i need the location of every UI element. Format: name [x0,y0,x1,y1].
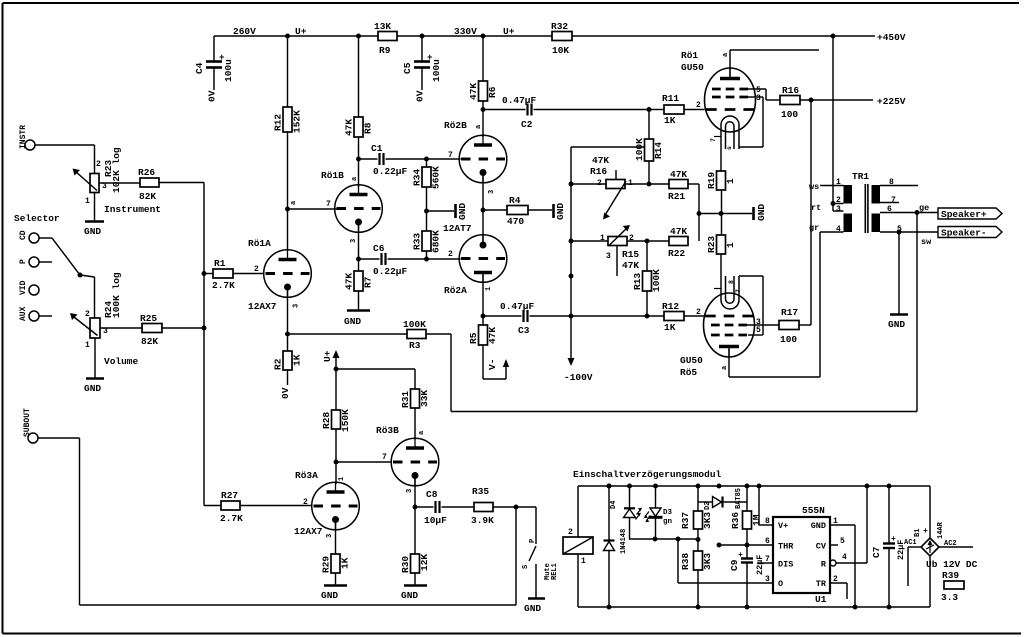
svg-text:R22: R22 [668,248,685,259]
pin 4 U1 [830,484,869,566]
pin 3 Ro3A cathode [326,534,334,538]
svg-text:1K: 1K [340,557,351,569]
svg-text:-100V: -100V [564,372,593,383]
svg-text:100K: 100K [403,319,426,330]
svg-text:GND: GND [84,383,101,394]
supply arrow -100V [564,358,593,383]
svg-text:INSTR: INSTR [19,125,28,149]
resistor R38 3K3 [680,529,713,609]
svg-text:rt: rt [811,203,821,213]
node out junction [676,537,681,542]
label Ro2A [444,285,467,296]
pin 2 Ro1 grid [696,101,701,110]
wire cathode GND row [699,213,752,215]
svg-text:R1: R1 [214,258,226,269]
svg-text:47K: 47K [670,169,687,180]
node R36/C9 junction [745,543,750,548]
capacitor C9 22uF [729,551,765,609]
node R19 bottom junction [719,211,724,216]
svg-text:GND: GND [401,590,418,601]
node R34 top junction [424,157,429,162]
svg-text:VID: VID [19,280,28,295]
resistor R37 3K3 [680,484,713,529]
wire R8 column [356,34,361,159]
svg-text:R5: R5 [468,332,479,344]
svg-text:R17: R17 [781,307,798,318]
svg-text:Volume: Volume [104,356,139,367]
node Ro1A cathode junction [285,332,290,337]
resistor R9 13K [374,21,397,56]
svg-text:8: 8 [728,280,735,284]
node +450V label [877,32,906,43]
svg-text:6: 6 [887,205,892,214]
node Ro3A anode junction [334,460,339,465]
pin 3 TR1 [836,205,841,214]
svg-text:47K: 47K [344,273,355,290]
pin a Ro1 anode [722,52,730,57]
svg-text:C3: C3 [518,325,530,336]
svg-text:BAT85: BAT85 [735,488,743,509]
node U+ label left [295,26,307,37]
node C6 left junction [356,257,361,262]
svg-text:+: + [923,527,928,536]
svg-text:AC1: AC1 [904,539,917,547]
pin s Ro1 heater [710,138,733,150]
svg-text:Rö1A: Rö1A [248,238,271,249]
svg-text:C9: C9 [729,559,740,571]
wire top B+ rail [214,35,875,37]
ground at R34/R33 junction [427,203,469,220]
svg-text:Rö3B: Rö3B [376,425,399,436]
pin 7 TR1 [891,196,896,205]
svg-text:GND: GND [84,226,101,237]
pin a Ro1A anode [290,200,298,205]
resistor R6 47K [468,81,498,101]
pin 5 TR1 [897,225,902,234]
svg-text:R34: R34 [412,169,423,186]
svg-text:C2: C2 [521,119,533,130]
svg-text:5: 5 [756,326,761,335]
pin 3 Ro3B cathode [406,489,414,493]
svg-text:V+: V+ [778,521,788,531]
wire Ro5 screen tap [747,324,779,326]
resistor R17 100 screen [779,307,799,345]
pin 3 Ro1 suppressor [756,94,761,103]
node 260V label [233,26,256,37]
svg-text:2: 2 [629,234,634,243]
label Ro1 [681,50,698,61]
wire AC2 [939,540,973,548]
resistor R31 33K [400,389,430,408]
label REL1 (switch) [551,563,559,580]
ground under transformer [888,315,908,331]
svg-text:7: 7 [710,138,717,142]
label Ro1A [248,238,271,249]
wire bias top frame [571,146,644,148]
V- supply arrow [483,359,509,379]
svg-text:152K: 152K [292,110,303,133]
svg-text:1: 1 [85,341,90,350]
svg-text:0V: 0V [207,90,218,102]
svg-text:GND: GND [524,603,541,614]
wire Ro1 anode lead [730,50,819,77]
resistor R7 47K [344,259,374,310]
svg-text:2: 2 [597,179,602,188]
svg-text:3: 3 [326,534,334,538]
svg-text:100u: 100u [223,59,234,82]
flag Speaker+ [938,208,1002,220]
node R25 junction [202,326,207,331]
svg-text:7: 7 [765,555,770,564]
svg-text:Einschaltverzögerungsmodul: Einschaltverzögerungsmodul [573,469,722,480]
label Ub 12V DC [926,559,978,570]
label Ro1B [321,170,344,181]
node junction Ro1A anode / Ro1B grid [285,207,290,212]
svg-text:Rö1: Rö1 [681,50,698,61]
ground under R30 [401,573,427,601]
label 12AT7 [443,223,472,234]
svg-text:R25: R25 [140,313,157,324]
resistor R12b 1K grid stopper [647,301,705,333]
svg-text:CD: CD [19,230,28,240]
svg-text:+: + [738,551,743,560]
wire Ro3B cathode lead [414,475,416,555]
capacitor C5 [402,34,442,90]
wire selector to volume pot [80,275,95,318]
label 12AX7 (Ro3A) [294,526,323,537]
pin 7 Ro1B grid [326,200,331,209]
resistor R23 1 (cathode) [706,235,736,254]
wire module V+ rail [578,485,930,487]
label Mute [544,563,552,580]
node 0V under C4 [207,90,218,102]
relay REL1 [563,486,593,607]
node selector arm dot [78,273,83,278]
resistor R36 1M [730,484,762,529]
svg-text:gn: gn [663,518,673,526]
svg-text:a: a [722,52,730,57]
LED D3 gn [644,484,673,539]
svg-text:Speaker-: Speaker- [941,228,987,239]
svg-text:a: a [475,124,483,129]
svg-text:U+: U+ [322,350,333,362]
svg-text:1N4148: 1N4148 [620,529,628,554]
tube Ro3A triode [312,482,360,530]
svg-text:R33: R33 [412,233,423,250]
pin 7 Ro2B grid [448,151,453,160]
svg-text:10K: 10K [552,45,569,56]
node trimmer R16 left junction [569,182,574,187]
capacitor C1 0.22uF [359,143,427,177]
pin a Ro5 anode [721,365,729,370]
svg-text:2: 2 [448,250,453,259]
wire R21/R22 right link [698,184,700,241]
svg-text:P: P [19,259,28,264]
pin 1 Ro3A anode [338,477,346,481]
resistor R5 47K [468,316,498,379]
svg-text:100K log: 100K log [111,272,122,318]
svg-text:R23: R23 [706,236,717,253]
svg-text:Rö1B: Rö1B [321,170,344,181]
svg-text:R36: R36 [730,512,741,529]
pin 2 U1 [830,575,847,599]
svg-text:C1: C1 [371,143,383,154]
svg-text:GND: GND [888,319,905,330]
svg-text:150K: 150K [340,409,351,432]
svg-text:0.22µF: 0.22µF [373,166,408,177]
wire Ro1B anode feed [358,159,360,187]
svg-text:S: S [522,565,530,569]
node 0V under R2 [280,387,291,399]
wire -100V column [570,147,572,364]
node U+ label right [503,26,515,37]
svg-text:R29: R29 [321,556,332,573]
pin 2 Ro5 grid [696,308,701,317]
ground under R24 pot [84,379,104,395]
svg-text:R38: R38 [680,553,691,570]
label sw [921,237,932,247]
resistor R33 680K [412,211,442,259]
label Instrument [104,204,161,215]
node C1 junction [356,157,361,162]
svg-text:R19: R19 [706,172,717,189]
trimmer R16 47K [571,155,649,220]
wire Ro1A anode lead [287,209,289,251]
svg-text:Rö2A: Rö2A [444,285,467,296]
node C3 junction [481,314,486,319]
svg-text:R16: R16 [590,166,607,177]
svg-text:2: 2 [85,310,90,319]
ground under R23 pot [84,222,104,238]
pin 1 U1 [830,517,857,609]
trimmer R15 47K [571,225,669,276]
svg-text:Ub 12V DC: Ub 12V DC [926,559,978,570]
resistor R39 3.3 [941,570,964,603]
svg-text:560K: 560K [431,166,442,189]
svg-text:AC2: AC2 [944,540,957,548]
svg-text:2: 2 [96,160,101,169]
pin 3 U1 [765,575,770,584]
ground at R19 junction [754,204,768,221]
capacitor C4 [194,36,234,90]
svg-text:2: 2 [696,101,701,110]
pin 1 Ro5 heater [728,280,742,293]
svg-text:R13: R13 [632,273,643,290]
node speaker minus junction [897,230,902,235]
svg-text:Selector: Selector [14,213,60,224]
svg-text:R7: R7 [363,276,374,288]
svg-text:6: 6 [765,537,770,546]
svg-text:R16: R16 [782,85,799,96]
label rt [811,203,821,213]
svg-text:R: R [821,560,827,570]
wire R12 column [285,34,290,209]
svg-text:+225V: +225V [877,96,906,107]
pin 1 TR1 [836,178,841,187]
pin 2 Ro2A grid [448,250,453,259]
wire R31 to Ro3B anode [414,408,416,440]
node trimmer R15 left junction [569,239,574,244]
resistor R19 1 [706,171,736,190]
jack P [19,257,52,267]
svg-text:2.7K: 2.7K [220,513,243,524]
svg-text:R21: R21 [668,191,685,202]
node -100V stub dot [569,274,574,279]
svg-text:SUBOUT: SUBOUT [23,408,32,437]
pin 8 U1 [757,484,773,526]
svg-text:12AT7: 12AT7 [443,223,472,234]
wire Ro1B cathode lead [358,221,360,259]
tube Ro2A triode inverted [459,235,507,283]
svg-text:2.7K: 2.7K [212,280,235,291]
svg-text:R8: R8 [363,122,374,134]
wire R23 to Ro5 cathode [720,254,722,290]
node C8 junction [413,505,418,510]
label GU50 (Ro1) [681,62,704,73]
svg-text:Rö3A: Rö3A [295,470,318,481]
pin 8 TR1 [889,178,894,187]
tube Ro1B triode [335,185,383,233]
svg-text:1K: 1K [664,322,676,333]
resistor R22 47K [668,226,688,259]
label Volume [104,356,139,367]
svg-text:14AR: 14AR [937,521,945,539]
svg-text:2: 2 [836,196,841,205]
label Ro2B [444,120,467,131]
svg-text:0.22µF: 0.22µF [373,266,408,277]
tube Ro2B triode [459,135,507,183]
pin a Ro3B anode [418,430,426,435]
resistor R13 100K [632,241,662,316]
svg-text:a: a [290,200,298,205]
svg-text:GND: GND [344,316,361,327]
wire R6 column [481,34,486,110]
pin 6 TR1 [887,205,892,214]
wire INSTR to pot [35,145,95,174]
label gr [809,223,819,233]
pin a Ro2B anode [475,124,483,129]
svg-text:GND: GND [321,590,338,601]
pin 1 Ro2A anode [485,287,493,291]
svg-text:R12: R12 [662,301,679,312]
svg-text:Rö2B: Rö2B [444,120,467,131]
pin 7 U1 [757,555,773,564]
resistor R26 82K [138,167,204,202]
svg-text:680K: 680K [431,230,442,253]
resistor R21 47K [649,169,699,202]
resistor R25 82K [140,313,204,347]
wire U+ to R31 [336,369,415,389]
svg-text:GU50: GU50 [681,62,704,73]
jack SUBOUT [23,408,38,443]
node R34/R33 junction [424,209,429,214]
diode D4 1N4148 [604,484,629,610]
pin a Ro1B anode [351,176,359,181]
svg-text:1: 1 [485,287,493,291]
node ge junction [915,210,920,215]
svg-text:R31: R31 [400,391,411,408]
svg-text:7: 7 [382,453,387,462]
capacitor C2 0.47uF [483,95,649,130]
node R13 top junction [645,239,650,244]
wire module GND rail [578,606,930,608]
potentiometer R24 100K log [70,272,142,378]
svg-text:GND: GND [756,204,767,221]
svg-text:O: O [778,579,783,589]
wire feedback loop [426,213,917,412]
node R35 output junction [514,505,519,510]
capacitor C6 0.22uF [359,243,427,277]
svg-text:1: 1 [836,178,841,187]
diode D2 BAT85 [698,488,747,510]
pin 5 Ro1 screen [756,86,761,95]
pin 7 Ro3B grid [382,453,387,462]
svg-text:1: 1 [833,517,838,526]
svg-text:C7: C7 [871,546,882,558]
svg-text:U+: U+ [295,26,307,37]
svg-text:DIS: DIS [778,560,793,570]
svg-text:Speaker+: Speaker+ [941,209,987,220]
wire Ro1 cathode lead [720,135,722,171]
svg-text:sw: sw [921,237,932,247]
node 0V under C5 [415,90,426,102]
tube Ro1 GU50 pentode [705,68,756,149]
svg-text:2: 2 [833,575,838,584]
svg-text:CV: CV [816,542,827,552]
svg-text:AUX: AUX [19,306,28,321]
wire secondary minus to ground [898,232,900,314]
pin 3 Ro1B cathode [350,239,358,243]
svg-text:13K: 13K [374,21,391,32]
svg-text:R15: R15 [622,249,639,260]
node cathode coupling junction [481,208,486,213]
tube Ro1A triode 12AX7 [264,250,312,298]
svg-text:R3: R3 [409,340,421,351]
resistor R28 150K [321,369,351,432]
label Ro3A [295,470,318,481]
svg-text:C8: C8 [426,489,438,500]
svg-text:3.9K: 3.9K [471,515,494,526]
resistor R16 100 screen [780,85,800,120]
svg-text:R12: R12 [273,114,284,131]
wire Ro2B anode feed [482,110,484,138]
svg-text:D4: D4 [610,501,618,509]
node R14 bottom junction [647,182,652,187]
svg-text:ws: ws [809,182,819,192]
capacitor C7 22uF [871,484,906,610]
svg-text:1: 1 [725,242,736,248]
svg-text:33K: 33K [419,390,430,407]
pin 5 Ro5 screen [756,326,761,335]
wire Ro5 g3 tie [739,276,763,335]
wire Ro1A cathode lead [287,286,289,334]
svg-text:3: 3 [350,239,358,243]
svg-text:3: 3 [103,327,108,336]
svg-text:GND: GND [457,203,468,220]
svg-text:+450V: +450V [877,32,906,43]
resistor R30 12K [400,554,430,573]
node R21/R22 mid junction [697,211,702,216]
LED D5 [624,484,643,539]
wire C1 to Ro2B grid [427,158,461,160]
svg-text:3: 3 [488,190,496,194]
ground under mute switch [524,599,545,615]
wire Ro3A cathode lead [335,519,337,555]
jack INSTR [19,125,35,150]
svg-text:R11: R11 [662,93,679,104]
label Ro3B [376,425,399,436]
svg-text:0V: 0V [415,90,426,102]
